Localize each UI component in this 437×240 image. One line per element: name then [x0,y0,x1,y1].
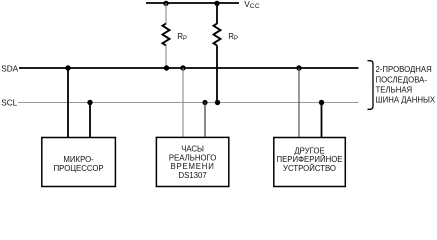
resistor R_P (SCL pull-up) [214,24,221,46]
svg-text:ШИНА ДАННЫХ: ШИНА ДАННЫХ [376,95,436,104]
svg-text:RP: RP [228,32,238,42]
wire: SCL stub to peripheral [321,103,323,138]
svg-text:DS1307: DS1307 [179,171,207,180]
wire: R2 bottom lead (crosses SDA, connects to SCL) [216,46,218,103]
wire: SDA stub to DS1307 (crosses SCL) [182,68,184,138]
svg-text:2-ПРОВОДНАЯ: 2-ПРОВОДНАЯ [376,65,432,74]
node: SCL / R2 junction [215,100,220,105]
svg-text:RP: RP [177,32,187,42]
node: SCL / microprocessor pin [87,100,92,105]
wire: SDA stub to microprocessor [67,68,69,138]
svg-text:ВРЕМЕНИ: ВРЕМЕНИ [171,162,215,171]
resistor R_P (SDA pull-up) [163,24,170,46]
wire: Vcc power rail [146,2,239,4]
svg-text:SCL: SCL [1,99,17,108]
wire: R1 top lead [165,3,167,24]
block: microprocessor [42,138,116,187]
svg-text:РЕАЛЬНОГО: РЕАЛЬНОГО [169,153,217,162]
node: SCL / DS1307 pin [202,100,207,105]
svg-text:ТЕЛЬНАЯ: ТЕЛЬНАЯ [376,85,413,94]
wire: R1 bottom lead [165,46,167,69]
block: real-time clock DS1307 [156,137,228,186]
svg-text:ПРОЦЕССОР: ПРОЦЕССОР [54,164,104,173]
wire: R2 top lead [216,3,218,24]
node: SDA / R1 junction [164,65,169,70]
svg-text:VCC: VCC [244,0,260,10]
svg-text:ДРУГОЕ: ДРУГОЕ [294,146,324,155]
wire: SDA stub to peripheral (crosses SCL) [298,68,300,138]
svg-text:МИКРО-: МИКРО- [63,155,94,164]
node: SDA / microprocessor pin [65,65,70,70]
svg-text:SDA: SDA [1,64,18,73]
node: Vcc / R1 junction [163,1,168,6]
node: SCL / peripheral pin [319,100,324,105]
svg-text:ПЕРИФЕРИЙНОЕ: ПЕРИФЕРИЙНОЕ [276,155,342,164]
node: SDA / DS1307 pin [180,65,185,70]
node: SDA / peripheral pin [296,65,301,70]
svg-text:УСТРОЙСТВО: УСТРОЙСТВО [283,164,336,173]
svg-text:ЧАСЫ: ЧАСЫ [181,145,204,154]
block: other peripheral device [274,138,346,187]
wire: SCL bus line [18,102,359,104]
svg-text:ПОСЛЕДОВА-: ПОСЛЕДОВА- [376,75,428,84]
node: Vcc / R2 junction [214,1,219,6]
wire: SDA bus line [19,67,359,69]
wire: SCL stub to DS1307 [204,103,206,138]
wire: SCL stub to microprocessor [89,103,91,138]
bracket: 2-wire bus grouping [368,61,374,110]
